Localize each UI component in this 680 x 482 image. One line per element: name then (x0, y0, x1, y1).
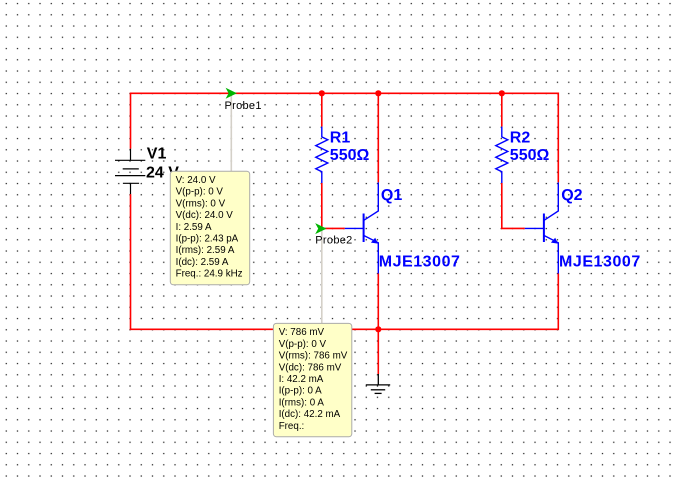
svg-text:V: 786 mV: V: 786 mV (279, 327, 325, 338)
svg-text:Freq.:: Freq.: (279, 421, 305, 432)
svg-text:V(dc): 24.0 V: V(dc): 24.0 V (176, 210, 234, 221)
svg-text:Q2: Q2 (561, 187, 582, 204)
svg-text:I(rms): 2.59 A: I(rms): 2.59 A (176, 245, 235, 256)
svg-text:I: 42.2 mA: I: 42.2 mA (279, 374, 324, 385)
svg-text:V(rms): 0 V: V(rms): 0 V (176, 198, 226, 209)
svg-text:Probe1: Probe1 (225, 100, 262, 112)
svg-text:550Ω: 550Ω (510, 147, 550, 164)
svg-text:I(dc): 42.2 mA: I(dc): 42.2 mA (279, 409, 341, 420)
svg-text:V(p-p): 0 V: V(p-p): 0 V (176, 187, 224, 198)
svg-text:MJE13007: MJE13007 (379, 254, 461, 271)
svg-text:R1: R1 (330, 130, 351, 147)
svg-text:I(p-p): 2.43 pA: I(p-p): 2.43 pA (176, 234, 239, 245)
svg-text:MJE13007: MJE13007 (559, 254, 641, 271)
svg-text:I(dc): 2.59 A: I(dc): 2.59 A (176, 257, 229, 268)
svg-text:I(rms): 0 A: I(rms): 0 A (279, 397, 325, 408)
svg-text:R2: R2 (510, 130, 531, 147)
svg-text:Probe2: Probe2 (315, 235, 352, 247)
svg-text:V(rms): 786 mV: V(rms): 786 mV (279, 351, 348, 362)
svg-text:I(p-p): 0 A: I(p-p): 0 A (279, 386, 322, 397)
svg-text:550Ω: 550Ω (330, 147, 370, 164)
svg-text:V1: V1 (147, 146, 167, 163)
svg-text:Q1: Q1 (381, 187, 402, 204)
svg-text:V(p-p): 0 V: V(p-p): 0 V (279, 339, 327, 350)
svg-text:Freq.: 24.9 kHz: Freq.: 24.9 kHz (176, 269, 243, 280)
svg-text:V: 24.0 V: V: 24.0 V (176, 175, 216, 186)
svg-text:I: 2.59 A: I: 2.59 A (176, 222, 212, 233)
svg-text:V(dc): 786 mV: V(dc): 786 mV (279, 362, 342, 373)
